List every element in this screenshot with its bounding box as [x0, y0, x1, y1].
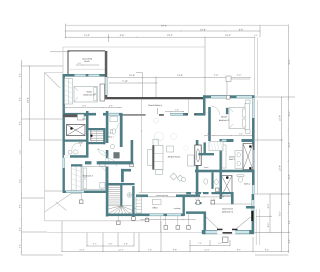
bottom dimension lines	[87, 245, 134, 247]
svg-text:8'-6": 8'-6"	[18, 227, 21, 231]
svg-text:6'-4": 6'-4"	[288, 239, 291, 243]
office north wall with cased opening	[136, 195, 200, 198]
svg-text:(Bedroom 3): (Bedroom 3)	[222, 210, 233, 213]
top dimension lines	[66, 24, 289, 26]
svg-text:11'-0": 11'-0"	[18, 149, 21, 154]
bedroom 4 nightstand	[100, 162, 106, 167]
bedroom 4 bed	[82, 167, 106, 190]
great room north interior wall	[171, 113, 188, 116]
fireplace	[195, 145, 201, 166]
balcony front edge wall	[106, 97, 203, 99]
small dim line under south wall	[160, 216, 162, 232]
left wing east wall	[86, 111, 89, 155]
office and landing labels	[153, 200, 162, 205]
svg-text:Ldry: Ldry	[82, 118, 86, 121]
west wall of left wing	[63, 111, 65, 193]
svg-text:54'-0": 54'-0"	[161, 24, 167, 27]
nook door tag	[223, 237, 229, 243]
svg-text:9'-4": 9'-4"	[237, 248, 241, 251]
svg-text:23'-4": 23'-4"	[167, 34, 173, 37]
master bath vanities	[222, 145, 226, 168]
great room east wall	[196, 140, 199, 197]
svg-text:Bath: Bath	[78, 141, 82, 144]
foyer west wall	[106, 111, 109, 143]
hall wall	[120, 115, 123, 147]
study closet	[65, 79, 73, 105]
svg-text:8'-0": 8'-0"	[18, 97, 21, 101]
nook north walls	[186, 192, 191, 194]
svg-text:14'-0": 14'-0"	[84, 34, 90, 37]
svg-text:10'-4": 10'-4"	[288, 142, 291, 147]
svg-text:Linen: Linen	[204, 166, 208, 169]
entry dimension lines	[136, 72, 142, 74]
svg-text:Uncovered: Uncovered	[82, 57, 93, 60]
svg-text:16'-0": 16'-0"	[225, 34, 231, 37]
study top wall with windows	[63, 74, 106, 77]
svg-text:4'-0": 4'-0"	[267, 223, 270, 228]
svg-text:Master: Master	[221, 116, 228, 119]
svg-text:Nook Room: Nook Room	[222, 207, 233, 210]
master bed and nightstands	[234, 112, 247, 125]
left dimension lines	[20, 60, 22, 255]
nook wall window tags	[196, 201, 200, 205]
media cabinet island	[153, 139, 158, 145]
master closet stub	[226, 108, 228, 114]
master bedroom dim line	[205, 135, 253, 137]
svg-text:5'-10": 5'-10"	[195, 198, 200, 201]
main stair with winders	[106, 183, 109, 217]
svg-text:6'-4": 6'-4"	[288, 220, 291, 224]
nook east jog wall	[246, 206, 255, 209]
hall closet	[209, 142, 223, 151]
linen closet with X	[222, 176, 233, 197]
bottom right extension lines	[255, 209, 257, 245]
bedroom 4 south wall with window	[63, 191, 108, 194]
svg-text:5'-6": 5'-6"	[207, 133, 211, 136]
svg-text:Media Room: Media Room	[168, 156, 181, 159]
svg-text:4'-6": 4'-6"	[108, 243, 112, 246]
svg-text:4'-6": 4'-6"	[109, 105, 113, 108]
nook ceiling break lines	[206, 217, 218, 229]
bath west wall	[220, 140, 222, 199]
svg-text:7'-4": 7'-4"	[218, 242, 222, 245]
svg-text:14'-6": 14'-6"	[79, 248, 85, 251]
office bookshelf	[136, 197, 142, 213]
svg-text:9'-8": 9'-8"	[120, 34, 125, 37]
svg-text:8'-6": 8'-6"	[18, 204, 21, 208]
top dimension extension lines	[65, 24, 67, 39]
bath A fixtures	[110, 117, 118, 122]
svg-text:7'-0": 7'-0"	[214, 74, 219, 77]
svg-text:4'-1": 4'-1"	[93, 243, 97, 246]
hall closet walls and door	[121, 169, 131, 172]
svg-text:7'-10": 7'-10"	[122, 80, 128, 83]
svg-text:24'-0": 24'-0"	[288, 59, 291, 64]
svg-text:13'-8": 13'-8"	[177, 74, 183, 77]
svg-text:Office: Office	[152, 206, 158, 209]
svg-text:Master: Master	[229, 155, 235, 158]
svg-text:9'-8": 9'-8"	[173, 248, 177, 251]
svg-text:6'-0": 6'-0"	[288, 201, 291, 205]
bath 4 toilet	[239, 177, 243, 182]
svg-text:12'-4": 12'-4"	[118, 248, 124, 251]
window tag squares	[79, 200, 83, 204]
svg-text:10'-4": 10'-4"	[288, 111, 291, 116]
svg-text:Study: Study	[86, 91, 92, 94]
svg-text:Landing: Landing	[174, 207, 181, 210]
svg-text:16'-8": 16'-8"	[129, 74, 135, 77]
hall closet with shelves	[86, 128, 106, 130]
right dimension lines	[287, 25, 289, 253]
laundry wall and counter	[63, 114, 89, 116]
svg-text:Grand Balcony: Grand Balcony	[148, 104, 163, 107]
bath divider wall	[195, 170, 255, 173]
mechanical chase with X brace	[67, 125, 86, 136]
media room chairs	[167, 146, 174, 152]
svg-text:11'-0": 11'-0"	[82, 105, 87, 108]
south wall with office windows	[108, 214, 185, 217]
svg-text:Bedroom 2: Bedroom 2	[219, 119, 230, 122]
svg-text:9'-2": 9'-2"	[279, 212, 282, 217]
svg-text:9'-0": 9'-0"	[18, 179, 21, 183]
svg-text:8'-8": 8'-8"	[239, 28, 244, 31]
master bedroom south wall	[220, 139, 255, 142]
svg-text:5'-0": 5'-0"	[267, 204, 270, 209]
bedroom 4 east wall	[106, 150, 109, 193]
study south wall and balcony half-wall	[63, 113, 97, 116]
svg-text:4'-0": 4'-0"	[78, 62, 82, 65]
svg-text:10'-8": 10'-8"	[288, 174, 291, 179]
bath B walls and fixtures	[131, 140, 134, 164]
svg-text:Bath 4: Bath 4	[244, 182, 251, 185]
powder bath walls and toilet	[211, 172, 213, 189]
bath 3 south wall	[63, 155, 89, 158]
svg-text:7'-4": 7'-4"	[198, 242, 202, 245]
roof eave outline	[44, 73, 46, 221]
upper window tag	[226, 76, 231, 82]
porch right wall with window	[105, 51, 108, 99]
svg-text:(Bedroom 5): (Bedroom 5)	[83, 93, 94, 96]
bath 3 fixtures	[73, 150, 78, 154]
media room boundary lines	[141, 100, 143, 193]
study bed	[74, 87, 98, 103]
nook soffit line	[215, 203, 252, 205]
svg-text:10'-8": 10'-8"	[279, 115, 282, 121]
master door swing	[211, 106, 220, 115]
svg-text:11'-6": 11'-6"	[204, 248, 209, 251]
master hall wall	[203, 95, 206, 115]
svg-text:9'-2": 9'-2"	[265, 248, 269, 251]
stair top wall	[106, 183, 135, 185]
svg-text:Bedroom 4: Bedroom 4	[83, 175, 94, 178]
svg-text:4'-6": 4'-6"	[124, 243, 128, 246]
bedroom 4 closet	[71, 166, 81, 193]
svg-text:13'-4": 13'-4"	[279, 165, 282, 171]
hall east wall	[204, 142, 206, 153]
svg-text:4'-0": 4'-0"	[175, 109, 179, 112]
svg-text:10'-8": 10'-8"	[200, 28, 206, 31]
hall stairs and door swings	[91, 129, 105, 141]
nook bay walls and windows	[204, 212, 207, 235]
svg-text:24'-8": 24'-8"	[27, 97, 30, 103]
study left wall	[63, 74, 65, 114]
master bath shower with X	[243, 144, 253, 170]
svg-text:7'-4": 7'-4"	[237, 74, 242, 77]
svg-text:1'-4": 1'-4"	[254, 34, 258, 37]
inner top dimension line	[108, 76, 250, 78]
master suite north wall with windows	[203, 95, 255, 98]
balcony leader and fan symbol	[157, 108, 159, 115]
master bedroom west wall	[208, 107, 211, 141]
svg-text:Stair 1: Stair 1	[108, 136, 113, 139]
svg-text:4'-0": 4'-0"	[18, 244, 21, 248]
east exterior wall with windows	[252, 95, 255, 194]
svg-text:Porch: Porch	[84, 60, 90, 63]
wall below chase	[63, 140, 89, 142]
svg-text:7'-6": 7'-6"	[148, 248, 152, 251]
uncovered porch	[68, 51, 105, 74]
office east wall	[183, 197, 185, 216]
ceiling fan symbols	[155, 132, 164, 141]
svg-text:cased opening: cased opening	[156, 194, 168, 197]
svg-text:9'-0": 9'-0"	[239, 133, 243, 136]
svg-text:8'-0": 8'-0"	[18, 73, 21, 77]
svg-text:8'-6": 8'-6"	[18, 121, 21, 125]
